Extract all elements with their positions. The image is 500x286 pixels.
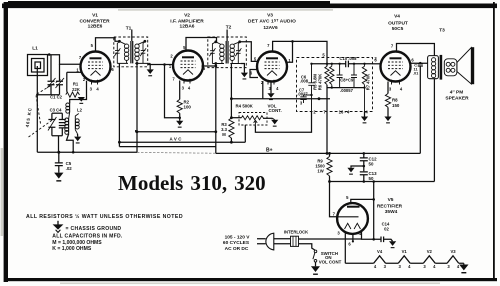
resistor R7 470K [362,64,366,112]
label V3 block [248,13,296,31]
ground T2 right [241,64,245,73]
wire left bus [37,151,137,153]
svg-text:7: 7 [391,44,394,49]
resistor R3 3.3M [229,99,234,143]
svg-text:3: 3 [423,264,426,269]
node bottom tie left [331,86,333,88]
capacitor C10 coupling [346,61,349,68]
wire couplate bottom tie [327,87,365,89]
svg-text:50: 50 [369,176,374,181]
svg-text:V4: V4 [377,249,383,254]
node R9 bottom [328,180,331,183]
IF transformer T2 [208,30,247,68]
svg-text:T3: T3 [439,28,445,34]
wire B+ bus [216,152,420,154]
wire V1 pin1 to R1 [67,71,81,73]
svg-text:I.F. AMPLIFIER: I.F. AMPLIFIER [170,18,204,24]
node R3 bottom junction [230,141,233,144]
svg-text:4: 4 [408,264,411,269]
svg-text:V2: V2 [184,13,190,19]
node pin1 top [291,40,294,43]
scan smudge left margin [1,148,3,236]
node C13 bottom [363,180,366,183]
pin labels V1 [76,43,114,92]
label R8 150 [392,98,400,109]
node C5 tap on bus [57,151,60,154]
resistor R1 22K (horizontal) [66,72,80,97]
wire L2 left winding to bus [67,134,74,152]
label C12 50 [369,156,378,166]
label V5 RECTIFIER 35W4 [377,197,403,215]
gang link dashed line [29,80,61,138]
wire T3 bottom down [433,79,435,182]
svg-text:= CHASSIS GROUND: = CHASSIS GROUND [66,226,122,232]
svg-text:3: 3 [399,264,402,269]
svg-text:V5: V5 [388,197,394,203]
capacitor C13 50 (electrolytic) [360,172,368,182]
svg-text:1: 1 [76,67,79,72]
svg-text:02: 02 [384,226,389,231]
ground below switch [311,266,320,275]
node R9 top B+ [328,152,331,155]
svg-text:CONT.: CONT. [269,108,282,113]
heater string line [345,262,464,264]
label 4" PM SPEAKER [445,89,469,101]
wire T1 primary bottom down [119,63,215,146]
label C5 .02 [66,161,73,171]
wire V5 pin4 to C14 [362,231,382,239]
svg-text:OUTPUT: OUTPUT [388,21,408,27]
svg-text:6: 6 [348,241,351,246]
potentiometer R4 500K volume control [231,113,272,126]
svg-text:22K: 22K [72,87,80,92]
svg-text:3: 3 [182,85,185,90]
wire interlock to C14 node [299,238,362,240]
resistor R9 1500 1W [327,153,332,181]
svg-text:5: 5 [91,43,94,48]
inductor L2 oscillator coil [65,103,79,134]
label V4 block [388,14,408,32]
wire rectifier output line [330,181,435,183]
svg-text:105 - 120 V: 105 - 120 V [225,235,251,241]
svg-text:.02: .02 [66,166,73,171]
svg-text:60 CYCLES: 60 CYCLES [223,240,250,246]
resistor R5 6.8M [325,66,329,84]
svg-text:7: 7 [172,77,175,82]
ground below C5 [54,173,63,182]
svg-text:C3 C4: C3 C4 [50,108,63,113]
capacitor C2 (trimmer, variable) [56,64,65,95]
speaker voice coil [444,59,457,76]
svg-text:L2: L2 [77,107,83,112]
resistor R6 470K [330,64,334,88]
svg-text:AVC: AVC [170,136,183,141]
chassis ground symbol (legend) [53,221,64,233]
wire V2 screen to T2 drop [202,65,216,67]
capacitor C14 .02 [381,237,393,243]
tube V2 12BA6 [173,51,203,84]
node detector wire R5 junction [318,97,321,100]
wire couplate top rail [312,63,373,65]
speaker cone [457,47,474,84]
svg-text:100: 100 [184,105,192,110]
wire V1 plate to T1 [96,38,120,52]
node detector top [230,97,233,100]
svg-text:ALL CAPACITORS IN MFD.: ALL CAPACITORS IN MFD. [52,234,123,240]
svg-text:R4 500K: R4 500K [236,104,254,109]
node C11 tap [419,62,422,65]
heater V4 [374,256,386,263]
svg-text:6: 6 [111,67,114,72]
capacitor C3 C4 box assembly [48,113,66,152]
ground below V3 [270,82,272,94]
svg-text:V4: V4 [394,14,400,20]
node T2 primary top [214,40,217,43]
pin labels couplate [300,53,378,115]
svg-text:SPEAKER: SPEAKER [445,95,469,101]
svg-text:5: 5 [346,195,349,200]
ground below R2 [179,118,181,121]
svg-text:.0027: .0027 [297,92,308,97]
node AVC T2 junction [214,130,217,133]
output transformer T3 [428,55,441,80]
wire V3 grid pin1 [287,41,293,62]
svg-text:VOL CONT: VOL CONT [319,259,342,264]
svg-text:L1: L1 [32,46,38,52]
pin labels V3 [250,43,292,91]
svg-text:C8+C9: C8+C9 [340,78,354,83]
svg-text:INTERLOCK: INTERLOCK [284,230,308,235]
svg-text:16 - 4: 16 - 4 [339,109,350,114]
label C7 .0027 [297,88,308,97]
scan smudge top [118,9,333,10]
node R7 bottom tie [363,86,365,88]
capacitor C11 .01 [418,63,423,153]
wire V4 plate to T3 [397,44,435,56]
node R2 bottom [178,117,181,120]
wire T2 secondary bottom to detector [230,64,232,99]
label C14 02 [382,221,390,231]
power plug [257,233,291,250]
svg-text:5: 5 [322,53,325,58]
node pin5 tap [372,198,375,201]
ground T1 right trimmer [149,63,151,69]
svg-text:4: 4 [433,264,436,269]
svg-text:.008: .008 [300,79,309,84]
label SWITCH ON VOL CONT [319,251,342,264]
node B+ couplate junction [326,152,329,155]
svg-text:.01: .01 [413,71,419,76]
svg-text:R8: R8 [392,98,398,103]
ground after C14 [389,241,396,248]
node T1 primary top [118,40,121,43]
node T2 secondary top [238,40,241,43]
svg-text:V1: V1 [402,249,408,254]
node C7 tap [310,94,312,96]
svg-text:DET AVC 1ST AUDIO: DET AVC 1ST AUDIO [248,18,296,24]
svg-text:12BE6: 12BE6 [88,24,103,30]
tube V4 50C5 [381,52,411,85]
node loop top junction [48,53,51,56]
node AVC T1 junction [136,130,139,133]
svg-text:2: 2 [374,56,377,61]
wire V1 pin2 to L2 top [70,81,87,104]
svg-text:3: 3 [90,87,93,92]
svg-text:R1: R1 [73,82,79,87]
wire V2 grid return to cathode [165,65,180,118]
label R9 1500 1W [315,158,325,173]
svg-text:7: 7 [267,43,270,48]
resistor R8 150 [385,82,390,117]
svg-text:R6 470K: R6 470K [317,74,322,91]
capacitor C5 [55,152,63,172]
node C1C2 bottom [36,94,38,96]
svg-text:7: 7 [333,211,336,216]
wire wiper to couplate pin2 [255,112,311,133]
node C6 top [310,63,312,65]
ground at heater string end [459,264,468,273]
svg-text:ALL RESISTORS ½ WATT UNLESS OT: ALL RESISTORS ½ WATT UNLESS OTHERWISE NO… [26,213,183,220]
label C11 .01 (stacked) [413,63,419,76]
wire V4 screen pin6 [410,62,428,64]
ground below R8 [384,117,391,124]
label 105-120V 60 CYCLES AC OR DC [223,235,250,252]
node C14 line top [372,180,375,183]
wire V3 pin6 loop [250,70,258,78]
ground below R1 [78,97,85,104]
wire C14 vertical [373,182,375,240]
svg-text:AC OR DC: AC OR DC [225,246,249,252]
label R2 100 [184,100,192,110]
wire T1 secondary to V2 grid [148,64,173,66]
node line B left end [118,141,121,144]
svg-text:V3: V3 [450,249,456,254]
capacitor C1 (tuning, variable) [47,55,56,95]
svg-text:4: 4 [276,86,279,91]
wire couplate center vertical pin5 to pin7 [326,58,328,154]
tube V1 12BE6 [81,52,111,85]
wire loop center tap down [36,66,38,152]
node T1 secondary bottom [136,62,139,65]
legend notes [26,213,183,252]
wire interlock bottom to switch [299,244,315,250]
ground below couplate pin4 [364,112,366,117]
svg-text:4: 4 [400,87,403,92]
label V1 block [79,13,110,30]
svg-text:T1: T1 [126,26,132,32]
scan smudge bottom [60,283,440,285]
label R3 3.3M [221,122,227,137]
wire V3 plate top to couplate [273,41,327,57]
node R3 top junction [230,116,233,119]
capacitor C9 [351,64,357,88]
wire V3 diode pin2 to detector load [231,81,330,99]
svg-text:C10 .008: C10 .008 [340,56,358,61]
svg-text:50: 50 [369,161,374,166]
svg-text:4: 4 [96,87,99,92]
svg-text:3: 3 [384,264,387,269]
capacitor C7 [300,95,311,103]
wire line B detector return [119,125,245,143]
svg-text:5: 5 [254,56,257,61]
ground below L2 right winding [74,137,81,144]
label R4 500K VOL CONT [236,104,282,113]
label C13 50 [369,171,378,181]
svg-text:CONVERTER: CONVERTER [79,18,110,24]
svg-text:4: 4 [188,85,191,90]
node C8 top [338,63,340,65]
svg-text:Models 310, 320: Models 310, 320 [118,171,266,195]
switch on volume control [313,250,317,266]
node top rail R5 [326,63,328,65]
tube V5 35W4 [337,203,368,234]
svg-text:V3: V3 [267,13,273,19]
svg-text:V1: V1 [92,13,98,19]
svg-text:150: 150 [392,103,400,108]
ground at pot right [271,120,278,127]
svg-text:4″ PM: 4″ PM [450,89,464,95]
wire loop top to V1 grid [48,55,82,64]
pin labels V5 [333,195,362,246]
svg-text:2: 2 [170,54,173,59]
node R7 top [363,63,365,65]
svg-text:4: 4 [374,264,377,269]
svg-text:35W4: 35W4 [385,209,398,215]
node V2 screen junction [214,65,217,68]
wire T2 bottom drop to B+ bus [215,64,217,154]
node T2 primary bottom [214,62,217,65]
interlock connector [291,236,299,246]
wire faint bus continuation [137,152,216,155]
wire V5 pin3 to heater line [344,232,346,264]
node C14 junction [372,238,375,241]
node top rail R6 [331,63,333,65]
wire T2 secondary to V3 [240,42,258,62]
IF transformer T1 [114,30,150,67]
pin labels V4 [374,44,414,92]
node grid return junction [163,63,166,66]
wire V5 plate drop [330,182,338,217]
svg-text:1W: 1W [317,169,323,174]
capacitor C12 50 (electrolytic) [360,153,368,171]
capacitor C8 [337,64,343,88]
wire V5 pin5 to line [351,199,374,203]
heater V2 [423,256,435,263]
wire C10 out to V4 grid [373,63,382,65]
ground C12 C13 midpoint [351,166,364,168]
wire T1 secondary bottom down to AVC [136,63,138,152]
heater V3 [447,256,459,263]
capacitor C6 [308,64,314,112]
tube V3 12AV6 [257,52,287,85]
resistor R2 100 [177,81,182,118]
svg-text:12AV6: 12AV6 [263,25,278,31]
svg-text:RECTIFIER: RECTIFIER [377,203,403,209]
wire V5 pin6 stub [352,233,354,241]
svg-text:3: 3 [389,87,392,92]
heater V1 [398,256,410,263]
loop antenna L1 [28,55,48,76]
node C12 top [363,152,366,155]
svg-text:3: 3 [300,101,303,106]
svg-text:465 KC: 465 KC [25,107,33,128]
svg-text:3: 3 [337,231,340,236]
svg-text:B+: B+ [266,147,273,153]
svg-text:M: M [222,132,226,137]
svg-text:50C5: 50C5 [392,26,404,32]
wire C1C2 bottom line [37,94,59,96]
heater labels [374,249,460,269]
svg-text:V2: V2 [427,249,433,254]
svg-text:4: 4 [365,109,368,114]
node T1 secondary top [144,40,147,43]
svg-text:12BA6: 12BA6 [180,24,195,30]
svg-text:C1 C2: C1 C2 [50,95,63,100]
svg-text:R7 470K: R7 470K [366,74,371,91]
node L2 bus junction [72,151,75,154]
label V2 block [170,13,204,30]
label R1 22K [72,82,80,92]
couplate unit dashed box [297,58,373,112]
pin labels V2 [169,45,206,91]
node C12 C13 mid [363,165,366,168]
node C9 top [353,63,355,65]
label C8+C9 .00057 [340,78,354,94]
label C6 .008 [300,74,309,83]
wire V2 plate to T2 [186,38,217,51]
svg-text:K = 1,000 OHMS: K = 1,000 OHMS [52,246,92,252]
svg-text:3: 3 [447,264,450,269]
svg-text:.00057: .00057 [340,88,353,93]
AVC line [136,130,217,132]
